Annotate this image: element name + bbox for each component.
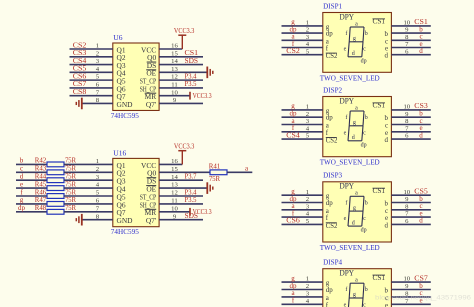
designator R41 — [209, 162, 221, 170]
net label f (DISP1) — [292, 40, 295, 48]
pin number 2 (U16) — [96, 166, 99, 173]
wire U6 pin 9 (Q7') — [159, 102, 203, 104]
pin name e (DISP3 pin 7) — [385, 215, 388, 222]
svg-text:dp: dp — [361, 58, 367, 64]
svg-text:dp: dp — [361, 142, 367, 148]
svg-text:d: d — [385, 53, 389, 60]
net label CS7 — [73, 80, 87, 88]
pin name CS2 with overline (DISP1 pin 5) — [326, 53, 338, 60]
wire net f to DISP1 pin 4 — [282, 47, 323, 49]
designator DISP4 — [323, 258, 342, 267]
wire net e to R45 — [16, 187, 47, 189]
pin number 10 (DISP1) — [403, 20, 410, 27]
pin number 2 (U6) — [96, 50, 99, 57]
svg-text:b: b — [365, 115, 368, 121]
net label b — [20, 157, 24, 165]
svg-text:a: a — [326, 38, 329, 45]
net label b (DISP4) — [419, 282, 423, 290]
pin number 4 (DISP4) — [306, 298, 310, 305]
svg-text:a: a — [355, 21, 358, 27]
svg-text:CS1: CS1 — [373, 103, 386, 110]
pin number 16 (U16) — [171, 158, 178, 165]
svg-text:1: 1 — [306, 20, 309, 27]
pin number 10 (DISP3) — [403, 189, 410, 196]
pin name g (DISP3 pin 1) — [326, 193, 330, 200]
svg-text:g: g — [20, 196, 24, 204]
net label b (DISP1) — [419, 25, 423, 33]
svg-text:b: b — [365, 31, 368, 37]
part type TWO_SEVEN_LED (DISP2) — [320, 159, 380, 167]
svg-text:d: d — [352, 51, 355, 57]
pin name Q7' (U16 pin 9) — [146, 216, 157, 225]
svg-text:c: c — [385, 208, 388, 215]
pin number 6 (U16) — [96, 198, 100, 205]
wire net g to DISP4 pin 1 — [282, 281, 323, 283]
wire U6 pin 12 (net P3.4) — [159, 79, 203, 81]
svg-text:VCC3.3: VCC3.3 — [174, 143, 195, 151]
wire U6 pin 10 to VCC3.3 — [159, 95, 190, 97]
svg-text:CS4: CS4 — [286, 131, 300, 139]
pin name Q3 (U16 pin 3) — [117, 177, 126, 186]
svg-text:b: b — [20, 157, 24, 165]
svg-text:75R: 75R — [65, 173, 76, 181]
net label SDS (U16) — [185, 212, 199, 220]
pin number 16 (U6) — [171, 43, 178, 50]
pin name e (DISP2 pin 7) — [385, 130, 388, 137]
pin number 3 (U6) — [96, 58, 100, 65]
wire net CS7 to U6 pin 6 — [70, 87, 113, 89]
svg-text:a: a — [326, 295, 329, 302]
pin name CS1 with overline (DISP1 pin 10) — [373, 19, 386, 26]
pin name Q2 (U6 pin 2) — [117, 53, 126, 62]
display DISP4 TWO_SEVEN_LED body — [323, 269, 392, 307]
svg-text:e: e — [385, 46, 388, 53]
net label CS6 — [73, 72, 87, 80]
pin number 11 (U6) — [171, 82, 177, 89]
wire R44 to U16 pin 3 — [64, 179, 113, 181]
svg-text:f: f — [345, 30, 347, 37]
display DISP3 TWO_SEVEN_LED body — [323, 182, 392, 242]
pin number 5 (DISP2) — [306, 133, 310, 140]
net label e (DISP2) — [419, 124, 422, 132]
pin name Q7' (U6 pin 9) — [146, 100, 157, 109]
pin number 4 (DISP3) — [306, 211, 310, 218]
wire R47 to U16 pin 6 — [64, 203, 113, 205]
wire net f to DISP3 pin 4 — [282, 216, 323, 218]
svg-text:10: 10 — [403, 104, 410, 111]
svg-text:g: g — [353, 36, 356, 42]
pin name dp (DISP2 pin 2) — [326, 115, 333, 122]
wire net CS4 to U6 pin 3 — [70, 64, 113, 66]
svg-text:75R: 75R — [65, 180, 76, 188]
svg-text:Q7': Q7' — [146, 100, 157, 109]
wire U6 pin 16 to VCC3.3 — [159, 48, 182, 50]
wire net CS6 to U6 pin 5 — [70, 79, 113, 81]
svg-text:CS6: CS6 — [286, 217, 300, 225]
svg-text:c: c — [363, 47, 366, 53]
wire net dp to DISP3 pin 2 — [282, 202, 323, 204]
resistor R44 75R body — [47, 178, 64, 183]
wire net dp to DISP1 pin 2 — [282, 32, 323, 34]
wire R43 to U16 pin 2 — [64, 171, 113, 173]
svg-text:c: c — [385, 123, 388, 130]
net label SDS — [185, 57, 199, 65]
svg-text:dp: dp — [18, 204, 26, 212]
svg-text:DISP3: DISP3 — [323, 171, 342, 180]
svg-text:U6: U6 — [113, 33, 122, 42]
net label e (DISP1) — [419, 40, 422, 48]
pin name SH_CP (U16 pin 11) — [140, 200, 157, 209]
pin number 8 (U16) — [96, 213, 100, 220]
net label g (DISP4) — [291, 274, 295, 282]
wire DISP3 pin 9 to net b — [391, 202, 430, 204]
wire net c to R43 — [16, 171, 47, 173]
svg-text:e: e — [385, 302, 388, 307]
svg-text:c: c — [363, 303, 366, 307]
pin name Q6 (U16 pin 6) — [117, 200, 126, 209]
resistor R46 75R body — [47, 194, 64, 199]
pin number 8 (DISP3) — [405, 203, 409, 210]
designator DISP3 — [323, 171, 342, 180]
wire DISP1 pin 10 to net CS1 — [391, 25, 430, 27]
net label CS5 — [73, 65, 87, 73]
pin number 9 (U6) — [173, 97, 177, 104]
svg-text:75R: 75R — [65, 157, 76, 165]
wire net g to DISP1 pin 1 — [282, 25, 323, 27]
pin name Q1 (U6 pin 1) — [117, 45, 126, 54]
net label e — [20, 180, 23, 188]
wire R42 to U16 pin 1 — [64, 163, 113, 165]
net label P3.5 (U16) — [185, 196, 197, 204]
IC U6 74HC595 body — [113, 43, 159, 110]
svg-text:75R: 75R — [65, 188, 76, 196]
pin name Q2 (U16 pin 2) — [117, 169, 126, 178]
svg-text:2: 2 — [306, 196, 309, 203]
pin name c (DISP4 pin 8) — [385, 295, 388, 302]
pin name f (DISP2 pin 4) — [326, 130, 329, 137]
power symbol VCC3.3 at U6 pin 16 — [174, 27, 195, 49]
pin number 1 (DISP2) — [306, 104, 309, 111]
resistor R41 75R body — [210, 170, 227, 175]
svg-text:d: d — [352, 135, 355, 141]
svg-text:c: c — [363, 131, 366, 137]
pin number 3 (DISP4) — [306, 291, 310, 298]
wire DISP1 pin 8 to net c — [391, 39, 430, 41]
net label CS3 — [73, 49, 87, 57]
svg-text:b: b — [385, 31, 389, 38]
svg-text:g: g — [353, 292, 356, 298]
wire net dp to R48 — [16, 211, 47, 213]
svg-text:1: 1 — [306, 189, 309, 196]
pin name Q7 (U16 pin 7) — [117, 208, 126, 217]
svg-text:1: 1 — [306, 276, 309, 283]
svg-text:d: d — [352, 220, 355, 226]
pin name OE (U6 pin 13) — [146, 69, 156, 78]
net label P3.7 — [185, 173, 197, 181]
pin name a (DISP3 pin 3) — [326, 208, 329, 215]
wire DISP3 pin 7 to net e — [391, 216, 430, 218]
designator R44 — [35, 173, 47, 181]
pin number 2 (DISP4) — [306, 283, 309, 290]
pin name g (DISP4 pin 1) — [326, 280, 330, 287]
wire R41 to net a — [227, 171, 252, 173]
net label CS2 (DISP1) — [286, 47, 300, 55]
wire net g to DISP2 pin 1 — [282, 109, 323, 111]
pin name MR (U16 pin 10) — [145, 208, 157, 217]
resistor R47 75R body — [47, 202, 64, 207]
wire net a to DISP4 pin 3 — [282, 296, 323, 298]
pin name GND (U16 pin 8) — [117, 216, 134, 225]
net label CS2 — [73, 41, 87, 49]
svg-text:e: e — [344, 131, 347, 137]
seven-segment glyph (DISP1) — [344, 21, 368, 64]
svg-text:DPY: DPY — [340, 12, 355, 21]
value 75R (R45) — [65, 180, 76, 188]
wire U16 pin 14 (net P3.7) — [159, 179, 203, 181]
wire net g to DISP3 pin 1 — [282, 194, 323, 196]
svg-text:P3.4: P3.4 — [185, 188, 197, 196]
svg-text:e: e — [385, 130, 388, 137]
wire U16 pin 15 to R41 — [159, 171, 210, 173]
designator DISP2 — [323, 85, 342, 94]
pin number 1 (DISP1) — [306, 20, 309, 27]
pin number 14 (U6) — [171, 58, 178, 65]
power symbol VCC3.3 at U16 pin 10 — [190, 208, 212, 216]
pin name b (DISP3 pin 9) — [385, 201, 389, 208]
wire U16 pin 13 to ground — [159, 187, 207, 189]
pin number 11 (U16) — [171, 198, 177, 205]
value 75R (R44) — [65, 173, 76, 181]
pin number 4 (DISP2) — [306, 125, 310, 132]
svg-text:d: d — [419, 131, 423, 139]
wire net dp to DISP4 pin 2 — [282, 289, 323, 291]
pin name a (DISP4 pin 3) — [326, 295, 329, 302]
pin name Q4 (U6 pin 4) — [117, 69, 126, 78]
svg-text:R43: R43 — [35, 165, 47, 173]
pin name a (DISP2 pin 3) — [326, 123, 329, 130]
pin number 7 (DISP4) — [405, 298, 409, 305]
svg-text:10: 10 — [403, 20, 410, 27]
svg-text:g: g — [353, 205, 356, 211]
pin name OE (U16 pin 13) — [146, 185, 156, 194]
pin number 4 (DISP1) — [306, 41, 310, 48]
net label f — [20, 188, 23, 196]
pin name CS2 with overline (DISP3 pin 5) — [326, 223, 338, 230]
net label c — [20, 165, 23, 173]
net label dp (DISP3) — [290, 195, 298, 203]
svg-text:DISP2: DISP2 — [323, 85, 342, 94]
svg-text:c: c — [20, 165, 23, 173]
net label c (DISP4) — [419, 289, 422, 297]
pin number 3 (DISP1) — [306, 34, 310, 41]
pin name e (DISP4 pin 7) — [385, 302, 388, 307]
pin number 1 (DISP4) — [306, 276, 309, 283]
pin name dp (DISP1 pin 2) — [326, 31, 333, 38]
designator U16 — [113, 149, 126, 158]
part name DPY (DISP3) — [340, 182, 355, 191]
svg-text:CS1: CS1 — [373, 275, 386, 282]
value 75R (R43) — [65, 165, 76, 173]
pin name d (DISP2 pin 6) — [385, 137, 389, 144]
svg-text:a: a — [355, 105, 358, 111]
pin name ST_CP (U16 pin 12) — [140, 192, 157, 201]
net label CS5 (DISP3) — [414, 188, 428, 196]
wire net CS5 to U6 pin 4 — [70, 71, 113, 73]
ground symbol at U6 pin 8 — [76, 98, 82, 110]
wire DISP3 pin 10 to net CS5 — [391, 194, 430, 196]
wire net CS3 to U6 pin 2 — [70, 56, 113, 58]
pin name f (DISP1 pin 4) — [326, 46, 329, 53]
resistor R42 75R body — [47, 162, 64, 167]
pin name Q1 (U16 pin 1) — [117, 161, 126, 170]
pin name Q7 (U6 pin 7) — [117, 92, 126, 101]
svg-text:dp: dp — [361, 228, 367, 234]
pin name CS1 with overline (DISP3 pin 10) — [373, 188, 386, 195]
svg-text:2: 2 — [306, 283, 309, 290]
pin number 10 (DISP2) — [403, 104, 410, 111]
svg-text:10: 10 — [403, 189, 410, 196]
net label P3.5 — [185, 80, 197, 88]
wire net dp to DISP2 pin 2 — [282, 116, 323, 118]
wire U6 pin 13 to ground — [159, 71, 207, 73]
svg-text:dp: dp — [326, 200, 333, 207]
wire DISP2 pin 8 to net c — [391, 124, 430, 126]
net label P3.4 (U16) — [185, 188, 197, 196]
svg-text:d: d — [385, 137, 389, 144]
pin number 14 (U16) — [171, 174, 178, 181]
wire net d to R44 — [16, 179, 47, 181]
pin number 9 (DISP3) — [405, 196, 409, 203]
net label CS4 — [73, 57, 87, 65]
pin number 7 (DISP3) — [405, 211, 409, 218]
svg-text:R41: R41 — [209, 162, 221, 170]
pin number 10 (U6) — [171, 89, 178, 96]
pin name ST_CP (U6 pin 12) — [140, 77, 157, 86]
svg-text:dp: dp — [326, 115, 333, 122]
designator U6 — [113, 33, 122, 42]
wire U16 pin 8 to ground — [82, 219, 113, 221]
net label CS6 (DISP3) — [286, 217, 300, 225]
part type 74HC595 (U6) — [111, 111, 139, 120]
wire net f to DISP4 pin 4 — [282, 303, 323, 305]
resistor R43 75R body — [47, 170, 64, 175]
net label dp (DISP4) — [290, 282, 298, 290]
svg-text:a: a — [326, 123, 329, 130]
net label CS8 — [73, 88, 87, 96]
pin name c (DISP3 pin 8) — [385, 208, 388, 215]
resistor R45 75R body — [47, 186, 64, 191]
svg-text:b: b — [365, 287, 368, 293]
pin number 6 (DISP3) — [405, 218, 409, 225]
pin number 1 (DISP3) — [306, 189, 309, 196]
wire DISP1 pin 7 to net e — [391, 47, 430, 49]
part type 74HC595 (U16) — [111, 227, 139, 236]
svg-text:GND: GND — [117, 100, 134, 109]
pin number 3 (U16) — [96, 174, 100, 181]
pin name Q0 (U6 pin 15) — [147, 53, 156, 62]
pin number 13 (U16) — [171, 182, 178, 189]
pin number 7 (DISP1) — [405, 41, 409, 48]
designator R42 — [35, 157, 47, 165]
wire net f to DISP2 pin 4 — [282, 131, 323, 133]
wire U16 pin 10 to VCC3.3 — [159, 211, 190, 213]
svg-text:VCC3.3: VCC3.3 — [174, 27, 195, 35]
svg-text:2: 2 — [306, 27, 309, 34]
wire net a to DISP2 pin 3 — [282, 124, 323, 126]
net label a (DISP1) — [291, 33, 295, 41]
svg-text:e: e — [385, 215, 388, 222]
svg-text:Q7': Q7' — [146, 216, 157, 225]
svg-text:TWO_SEVEN_LED: TWO_SEVEN_LED — [320, 74, 380, 82]
pin number 4 (U6) — [96, 66, 100, 73]
pin name CS1 with overline (DISP4 pin 10) — [373, 275, 386, 282]
power symbol VCC3.3 at U16 pin 16 — [174, 143, 195, 165]
pin number 9 (U16) — [173, 213, 177, 220]
svg-text:e: e — [344, 303, 347, 307]
pin number 3 (DISP3) — [306, 203, 310, 210]
net label P3.4 — [185, 72, 197, 80]
svg-text:75R: 75R — [209, 175, 220, 183]
svg-text:a: a — [355, 191, 358, 197]
wire net a to DISP3 pin 3 — [282, 209, 323, 211]
svg-text:DISP4: DISP4 — [323, 258, 342, 267]
net label dp (DISP2) — [290, 110, 298, 118]
pin name Q4 (U16 pin 4) — [117, 185, 126, 194]
svg-text:CS1: CS1 — [373, 19, 386, 26]
svg-text:b: b — [365, 200, 368, 206]
net label g (DISP1) — [291, 18, 295, 26]
value 75R (R47) — [65, 196, 76, 204]
svg-text:DISP1: DISP1 — [323, 1, 342, 10]
svg-text:c: c — [385, 38, 388, 45]
net label e (DISP3) — [419, 209, 422, 217]
pin name dp (DISP3 pin 2) — [326, 200, 333, 207]
svg-text:d: d — [419, 217, 423, 225]
svg-text:10: 10 — [403, 276, 410, 283]
svg-text:e: e — [344, 47, 347, 53]
svg-text:a: a — [326, 208, 329, 215]
pin number 5 (DISP3) — [306, 218, 310, 225]
pin number 8 (DISP4) — [405, 291, 409, 298]
wire DISP1 pin 6 to net d — [391, 54, 430, 56]
svg-text:75R: 75R — [65, 196, 76, 204]
pin number 7 (U16) — [96, 205, 100, 212]
pin name f (DISP4 pin 4) — [326, 302, 329, 307]
svg-text:b: b — [385, 288, 389, 295]
net label dp (DISP1) — [290, 25, 298, 33]
svg-text:DPY: DPY — [340, 96, 355, 105]
pin number 15 (U16) — [171, 166, 178, 173]
svg-text:U16: U16 — [113, 149, 126, 158]
value 75R (R46) — [65, 188, 76, 196]
pin number 6 (DISP2) — [405, 133, 409, 140]
pin number 10 (U16) — [171, 205, 178, 212]
svg-text:R46: R46 — [35, 188, 47, 196]
wire DISP4 pin 10 to net CS7 — [391, 281, 430, 283]
pin number 8 (DISP1) — [405, 34, 409, 41]
svg-text:75R: 75R — [65, 165, 76, 173]
power symbol VCC3.3 at U6 pin 10 — [190, 92, 212, 100]
designator R48 — [35, 204, 47, 212]
pin number 3 (DISP2) — [306, 118, 310, 125]
net label d (DISP3) — [419, 217, 423, 225]
net label f (DISP2) — [292, 124, 295, 132]
wire DISP2 pin 9 to net b — [391, 116, 430, 118]
pin name DS (U6 pin 14) — [147, 61, 157, 70]
wire net g to R47 — [16, 203, 47, 205]
svg-text:b: b — [385, 115, 389, 122]
pin name a (DISP1 pin 3) — [326, 38, 329, 45]
